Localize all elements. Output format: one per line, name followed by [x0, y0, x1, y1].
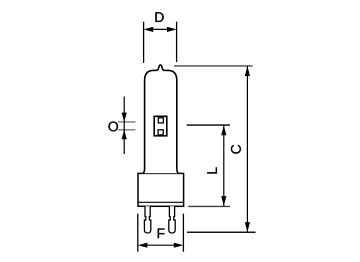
dimension F extension line left — [137, 214, 139, 252]
bulb outline — [143, 65, 178, 173]
pin right — [169, 206, 175, 233]
dimension C arrow line — [245, 66, 250, 232]
label F — [158, 228, 165, 238]
electrode bottom — [158, 130, 163, 135]
dimension F extension line right — [182, 214, 184, 252]
label L — [207, 167, 217, 173]
dimension D extension line left — [143, 22, 145, 63]
dimension C extension line bottom — [187, 231, 256, 233]
label D — [155, 12, 163, 22]
dimension O extension line bottom — [118, 129, 136, 131]
dimension D extension line right — [176, 22, 178, 62]
dimension L extension line bottom — [188, 205, 230, 207]
electrode top — [158, 118, 163, 123]
dimension F arrow line — [138, 243, 184, 248]
dimension L extension line top — [187, 124, 230, 126]
label O — [108, 121, 118, 131]
dimension O extension line top — [118, 121, 136, 123]
dimension C extension line top — [174, 65, 253, 67]
dimension D arrow line — [144, 27, 177, 32]
dimension O arrow line — [122, 97, 127, 155]
dimension L arrow line — [221, 125, 226, 205]
base shell — [138, 173, 184, 206]
burner (arc tube) — [154, 116, 167, 136]
label C — [231, 145, 241, 154]
pin left — [144, 206, 150, 233]
